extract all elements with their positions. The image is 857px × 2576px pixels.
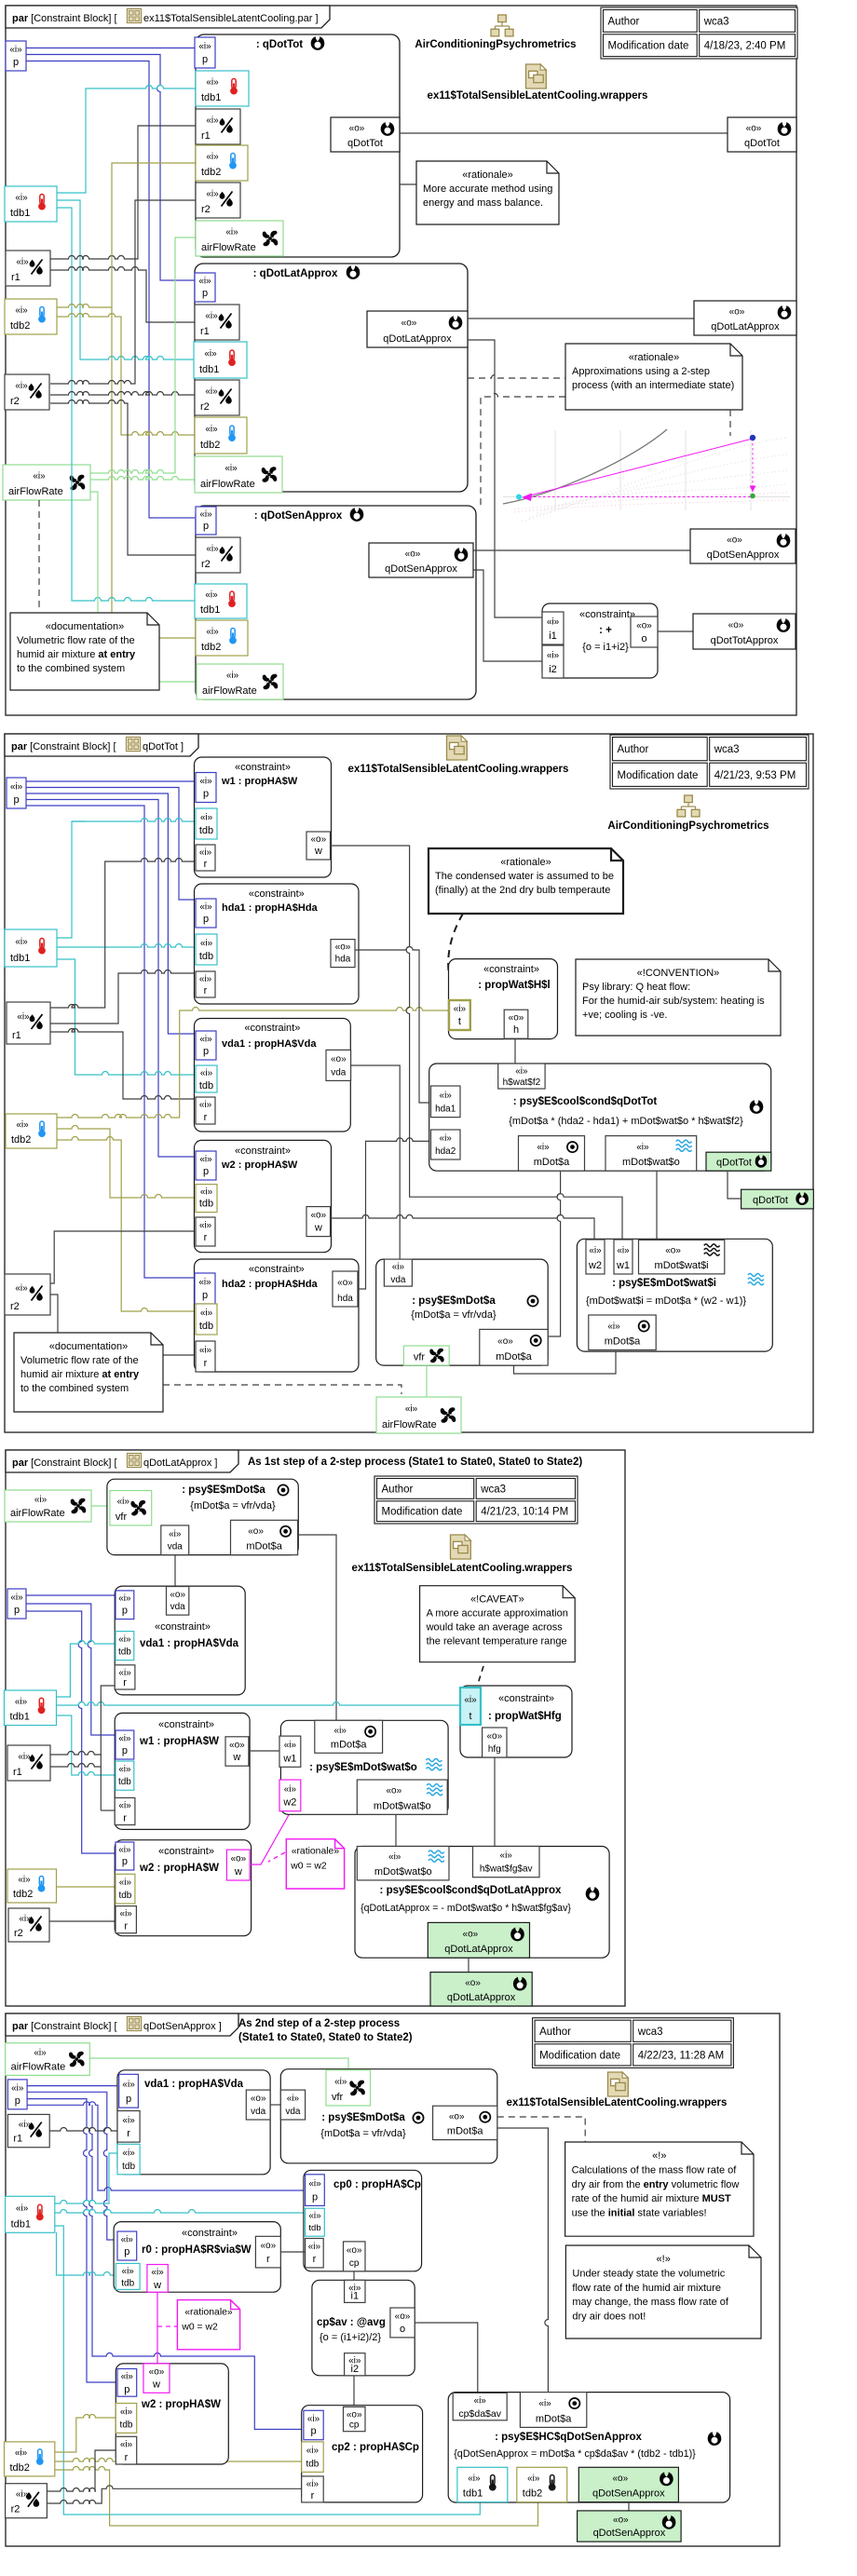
svg-text:r1: r1 (13, 2134, 22, 2145)
chart magenta process lines (524, 439, 753, 497)
rationale note panel 2 (condensed water) (428, 848, 623, 914)
svg-text:r: r (123, 1677, 127, 1688)
source pin «i» r1 (panel 4) (7, 2114, 49, 2147)
pin qDotTot-eq «i» h$wat$f2 (498, 1064, 545, 1089)
panel 3 tab (6, 1450, 238, 1472)
panel 1 frame par ex11$TotalSensibleLatentCooling.par (6, 6, 796, 715)
svg-text:«i»: «i» (18, 1875, 31, 1885)
constraint block : + (sum) (542, 603, 658, 678)
svg-text:p: p (122, 1606, 128, 1617)
svg-text:o: o (641, 633, 646, 644)
wire p to cp0.p (panel 4) (27, 2102, 306, 2190)
svg-text:i2: i2 (351, 2364, 360, 2375)
wire r1 to w1.r (50, 859, 196, 1008)
package icon AirConditioningPsychrometrics (panel 2) (677, 795, 700, 818)
svg-text:«i»: «i» (18, 1752, 31, 1762)
wire cpav.o to HC.cp$da$av (415, 2323, 478, 2393)
svg-text:p: p (312, 2191, 318, 2203)
pin propWatHl «i» t (449, 1000, 470, 1030)
svg-text:Author: Author (618, 744, 649, 755)
svg-text:4/18/23, 2:40 PM: 4/18/23, 2:40 PM (704, 41, 786, 52)
wire p to qDotTot.p (26, 47, 195, 49)
pin w1 «o» w (306, 832, 331, 860)
svg-text:Modification date: Modification date (618, 770, 699, 781)
svg-text:i2: i2 (549, 664, 557, 675)
svg-text:«i»: «i» (500, 1851, 513, 1861)
svg-text:{o = (i1+i2)/2}: {o = (i1+i2)/2} (320, 2332, 381, 2343)
svg-text:qDotSenApprox: qDotSenApprox (707, 549, 780, 561)
svg-text:AirConditioningPsychrometrics: AirConditioningPsychrometrics (415, 39, 576, 50)
svg-text:dry air from the entry volumet: dry air from the entry volumetric flow (572, 2179, 740, 2190)
svg-text:«i»: «i» (306, 2479, 320, 2489)
wire tdb2 to w2.tdb (panel 4) (55, 2415, 116, 2453)
svg-text:tdb2: tdb2 (11, 1134, 31, 1146)
svg-text:tdb: tdb (118, 1891, 131, 1901)
svg-text:«o»: «o» (613, 2515, 629, 2526)
svg-text:«i»: «i» (474, 2395, 487, 2406)
svg-text:«i»: «i» (120, 1909, 133, 1919)
svg-text:«i»: «i» (607, 1322, 620, 1332)
svg-text:«i»: «i» (15, 193, 28, 203)
svg-text:vda: vda (251, 2107, 266, 2117)
svg-text:«i»: «i» (122, 2149, 135, 2159)
pin hda1 «i» r (196, 971, 215, 997)
constraint block : propWat$Hfg (460, 1686, 572, 1757)
svg-text:h$wat$fg$av: h$wat$fg$av (480, 1864, 533, 1875)
anchor dashed magenta rationale (268, 1852, 285, 1862)
svg-text:«o»: «o» (149, 2367, 165, 2378)
svg-text:«i»: «i» (199, 1155, 212, 1165)
anchor dashed rationale2 to chart (729, 410, 731, 436)
svg-text:«i»: «i» (118, 1593, 131, 1604)
svg-text:«i»: «i» (440, 1133, 453, 1144)
svg-text:«i»: «i» (15, 937, 28, 947)
wire qDotTot out to frame port (400, 132, 728, 134)
wire r1 to qDotTot.r1 (50, 126, 196, 259)
anchor dashed airFlowRate to documentation note (38, 500, 40, 611)
svg-text:w2 : propHA$W: w2 : propHA$W (221, 1159, 298, 1171)
source pin «i» r1 (panel 1) (6, 251, 50, 286)
svg-text:«i»: «i» (199, 777, 212, 787)
wire vda1.vda down to psy mDot$a vda (351, 1065, 401, 1259)
pin mDota3 «i» vfr (110, 1491, 152, 1525)
svg-text:«i»: «i» (33, 471, 46, 481)
wire airFlowRate to qDotLatApprox.airFlowRate (90, 477, 195, 480)
svg-text:wca3: wca3 (637, 2027, 663, 2038)
svg-text:w: w (152, 2379, 160, 2390)
svg-text:p: p (15, 2095, 20, 2107)
svg-text:vda: vda (331, 1067, 347, 1078)
svg-text:: psy$E$mDot$a: : psy$E$mDot$a (182, 1485, 265, 1496)
source pin «i» r1 (panel 3) (7, 1745, 50, 1781)
svg-text:ex11$TotalSensibleLatentCoolin: ex11$TotalSensibleLatentCooling.par ] (143, 13, 319, 24)
svg-text:«i»: «i» (16, 257, 29, 267)
pin qDotTot «i» r1 (196, 109, 240, 144)
pin hda2 «i» tdb (196, 1304, 217, 1335)
pin qDotTot «i» tdb1 (196, 71, 249, 106)
svg-text:«o»: «o» (449, 2111, 465, 2122)
svg-text:«rationale»: «rationale» (500, 857, 551, 868)
svg-text:«rationale»: «rationale» (184, 2308, 233, 2318)
constraint block cp2 : propHA$Cp (302, 2406, 423, 2502)
pin w1-3 «i» p (116, 1730, 134, 1759)
source pin «i» tdb1 (panel 3) (5, 1690, 57, 1726)
wire w2.w to mDot$wat$i.w2 (331, 1215, 595, 1241)
svg-text:Under steady state the volumet: Under steady state the volumetric (572, 2268, 725, 2279)
svg-text:{mDot$wat$i = mDot$a * (w2 - w: {mDot$wat$i = mDot$a * (w2 - w1)} (586, 1295, 746, 1307)
svg-text:«o»: «o» (248, 1526, 264, 1537)
svg-text:w: w (153, 2280, 161, 2291)
pin latapprox-eq «i» h$wat$fg$av (473, 1847, 540, 1878)
pin r0 «i» tdb (116, 2263, 140, 2289)
svg-text:«i»: «i» (15, 1697, 28, 1707)
source pin «i» tdb2 (panel 1) (5, 299, 57, 334)
svg-text:«o»: «o» (746, 124, 762, 134)
pin qDotLatApprox «i» p (195, 273, 215, 302)
svg-text:vda1 : propHA$Vda: vda1 : propHA$Vda (144, 2079, 244, 2090)
wire qDotSenApprox to plus.i2 (473, 570, 542, 661)
panel 4 frame par qDotSenApprox (6, 2013, 780, 2546)
wire tdb1 to vda1.tdb (panel 4) (55, 2153, 117, 2203)
svg-text:vfr: vfr (332, 2092, 344, 2103)
svg-text:: psy$E$HC$qDotSenApprox: : psy$E$HC$qDotSenApprox (495, 2432, 642, 2443)
pin HC «i» tdb2 (olive) (517, 2467, 567, 2501)
svg-text:«i»: «i» (287, 2094, 300, 2104)
svg-text:«o»: «o» (729, 307, 745, 318)
wire airFlowRate to qDotTot.airFlowRate (90, 237, 196, 473)
svg-text:o: o (400, 2324, 405, 2335)
note ! under steady state (panel 4) (565, 2245, 761, 2339)
source pin «i» tdb2 (panel 2) (6, 1114, 57, 1148)
svg-text:«constraint»: «constraint» (235, 1146, 291, 1157)
svg-text:tdb: tdb (306, 2459, 319, 2469)
svg-text:hda1: hda1 (435, 1105, 456, 1115)
svg-text:«i»: «i» (392, 1262, 405, 1272)
svg-text:«i»: «i» (118, 1845, 131, 1855)
wire tdb1 to vda1.tdb (57, 959, 196, 1075)
constraint block : psy$E$mDot$a (panel 3) (107, 1479, 298, 1554)
pin vda1-4 «i» p (119, 2074, 139, 2108)
constraint block vda1 : propHA$Vda (panel 2) (195, 1019, 351, 1132)
svg-text:«constraint»: «constraint» (483, 964, 539, 975)
svg-text:r1: r1 (13, 1767, 22, 1778)
pin w2 «i» p (196, 1151, 216, 1180)
wire tdb2 to w2.tdb (panel 3) (56, 1886, 116, 1888)
svg-text:mDot$wat$o: mDot$wat$o (622, 1157, 680, 1168)
svg-text:: propWat$Hfg: : propWat$Hfg (488, 1711, 562, 1722)
svg-text:ex11$TotalSensibleLatentCoolin: ex11$TotalSensibleLatentCooling.wrappers (348, 764, 569, 775)
svg-text:par [Constraint Block] [: par [Constraint Block] [ (12, 13, 117, 24)
pin propWatHfg «i» t (cyan) (460, 1688, 481, 1725)
svg-text:«documentation»: «documentation» (49, 1341, 128, 1352)
svg-text:cp$av : @avg: cp$av : @avg (317, 2317, 386, 2328)
svg-text:«i»: «i» (118, 1734, 131, 1744)
svg-text:«i»: «i» (10, 1593, 23, 1603)
svg-text:Calculations of the mass flow: Calculations of the mass flow rate of (572, 2164, 738, 2176)
wire p to w1.p (26, 780, 196, 782)
svg-text:airFlowRate: airFlowRate (382, 1419, 437, 1430)
pin hda1 «i» tdb (196, 934, 217, 965)
pin qDotSenApprox «i» airFlowRate (197, 664, 283, 699)
constraint block w2 : propHA$W (panel 2) (195, 1140, 332, 1252)
pin qDotTot «i» r2 (196, 183, 240, 218)
author table panel 2 (610, 735, 809, 789)
svg-text:ex11$TotalSensibleLatentCoolin: ex11$TotalSensibleLatentCooling.wrappers (428, 90, 648, 102)
svg-text:A more accurate approximation: A more accurate approximation (427, 1608, 568, 1620)
anchor dashed mDot$a to note (497, 2117, 585, 2142)
pin qDotLatApprox «i» r2 (195, 380, 239, 415)
wire tdb2 to cp2.tdb (panel 4) (55, 2459, 302, 2462)
svg-text:(finally) at the 2nd dry bulb: (finally) at the 2nd dry bulb temperaute (435, 885, 610, 896)
svg-text:p: p (203, 521, 209, 532)
svg-text:«rationale»: «rationale» (629, 352, 679, 363)
source pin «i» p (panel 4) (7, 2080, 27, 2109)
panel 1 tab (6, 6, 330, 28)
svg-text:tdb1: tdb1 (201, 92, 221, 103)
svg-text:mDot$wat$o: mDot$wat$o (374, 1866, 432, 1878)
pin r0 «i» w (magenta) (147, 2265, 168, 2293)
pin cp0 «i» tdb (306, 2208, 325, 2236)
svg-text:«o»: «o» (636, 621, 652, 631)
svg-text:«o»: «o» (331, 1054, 347, 1064)
svg-text:«i»: «i» (538, 2399, 551, 2409)
wire p to w2.p (panel 3) (26, 1611, 116, 1853)
svg-text:airFlowRate: airFlowRate (10, 1508, 65, 1519)
svg-text:«i»: «i» (307, 2414, 320, 2424)
wire tdb2 to hda2.tdb (57, 1137, 196, 1312)
svg-text:tdb: tdb (199, 1199, 213, 1210)
svg-text:«i»: «i» (284, 1741, 297, 1751)
constraint block : psy$E$mDot$wat$o (280, 1720, 448, 1814)
wire tdb1 to hda1.tdb (57, 944, 196, 947)
svg-text:«constraint»: «constraint» (158, 1719, 214, 1730)
svg-text:AirConditioningPsychrometrics: AirConditioningPsychrometrics (607, 820, 769, 832)
svg-text:«i»: «i» (121, 2235, 134, 2245)
svg-text:«i»: «i» (405, 1404, 418, 1415)
svg-text:«!»: «!» (652, 2150, 666, 2162)
svg-text:vfr: vfr (414, 1352, 426, 1363)
svg-text:«i»: «i» (224, 464, 238, 474)
svg-text:rate of the humid air mixture: rate of the humid air mixture MUST (572, 2193, 731, 2204)
svg-text:Author: Author (382, 1484, 414, 1495)
wire p to vda1.p (panel 3) (26, 1594, 116, 1596)
pin vda1-4 «i» tdb (117, 2144, 140, 2175)
pin qDotLatApprox «i» r1 (195, 305, 239, 340)
svg-text:p: p (13, 794, 19, 806)
svg-text:hda2: hda2 (435, 1146, 456, 1157)
wire mDot$a to HC.mDot$a (solid) (497, 2128, 549, 2393)
svg-text:«i»: «i» (334, 1726, 347, 1736)
wire vda1.vda to psy vda (panel 4) (270, 2104, 280, 2106)
svg-text:«i»: «i» (205, 590, 218, 601)
wire airFlowRate to qDotSenApprox.airFlowRate (90, 492, 197, 682)
svg-text:«i»: «i» (16, 2203, 29, 2214)
svg-text:«i»: «i» (206, 627, 219, 637)
pin w1-3 «o» w (225, 1737, 249, 1766)
pin w2-3 «i» p (116, 1842, 134, 1870)
constraint block hda1 : propHA$Hda (panel 2) (195, 884, 360, 1004)
svg-text:tdb: tdb (199, 951, 213, 962)
wire p to vda1.p (panel 4) (27, 2085, 119, 2087)
svg-text:: qDotLatApprox: : qDotLatApprox (253, 268, 338, 279)
svg-text:p: p (203, 789, 209, 800)
pin hda2 «o» hda (333, 1271, 358, 1307)
anchor dashed documentation to airFlowRate (163, 1385, 401, 1394)
svg-text:«o»: «o» (337, 1278, 353, 1288)
pin w1-3 «i» r (115, 1797, 135, 1824)
wire cp0.cp to cpav.i1 (353, 2271, 355, 2281)
pin plus «i» i1 (542, 612, 564, 644)
svg-text:«i»: «i» (199, 1100, 212, 1110)
wire h to h$wat$f2 (514, 1039, 516, 1064)
svg-text:r1: r1 (12, 1030, 21, 1041)
svg-text:use the initial state variable: use the initial state variables! (572, 2208, 707, 2219)
svg-text:cp: cp (349, 2420, 360, 2431)
svg-text:«i»: «i» (308, 2242, 321, 2252)
svg-text:process (with an intermediate: process (with an intermediate state) (572, 380, 734, 391)
note !CONVENTION (576, 959, 781, 1036)
constraint block cp0 : propHA$Cp (304, 2170, 422, 2271)
svg-text:«i»: «i» (199, 974, 212, 984)
svg-text:vda: vda (285, 2107, 301, 2117)
svg-text:«i»: «i» (117, 1497, 130, 1507)
source pin «i» r2 (panel 1) (5, 374, 49, 410)
svg-text:mDot$a: mDot$a (605, 1336, 641, 1348)
svg-text:«i»: «i» (121, 2372, 134, 2382)
pin cp2 «o» cp (344, 2407, 366, 2431)
svg-text:«constraint»: «constraint» (498, 1693, 554, 1704)
svg-text:tdb2: tdb2 (200, 440, 220, 451)
svg-text:«i»: «i» (34, 1495, 48, 1505)
constraint block : psy$E$HC$qDotSenApprox (448, 2393, 729, 2502)
svg-text:qDotLatApprox: qDotLatApprox (444, 1944, 513, 1955)
svg-text:w1 : propHA$W: w1 : propHA$W (221, 776, 298, 787)
wire mDot$a down to mDot$wat$i.mDot$a (514, 1350, 617, 1374)
svg-text:{mDot$a * (hda2 - hda1) + mDo: {mDot$a * (hda2 - hda1) + mDot$wat$o * h… (509, 1116, 743, 1127)
svg-text:r: r (204, 1112, 208, 1123)
pin mDota4 «i» vda (280, 2090, 305, 2120)
svg-text:r: r (204, 859, 208, 870)
svg-text:«i»: «i» (454, 1004, 467, 1014)
svg-text:qDotLatApprox: qDotLatApprox (447, 1992, 516, 2003)
svg-text:hda1 : propHA$Hda: hda1 : propHA$Hda (222, 902, 319, 914)
svg-text:«i»: «i» (199, 1035, 212, 1045)
svg-text:«i»: «i» (205, 425, 218, 435)
svg-text:«o»: «o» (251, 2094, 266, 2104)
svg-text:to the combined system: to the combined system (20, 1383, 129, 1394)
constraint block r0 : propHA$R$via$W (114, 2222, 280, 2293)
pin qDotLatApprox «i» airFlowRate (195, 456, 282, 493)
svg-text:4/21/23, 9:53 PM: 4/21/23, 9:53 PM (714, 770, 796, 781)
svg-text:r2: r2 (10, 1301, 20, 1312)
wire p to vda1.p (26, 793, 196, 1034)
svg-text:qDotSenApprox: qDotSenApprox (593, 2528, 666, 2539)
wire mDot$a out to mDot$wat$o.mDot$a (298, 1535, 336, 1720)
pin vda1-4 «i» r (117, 2111, 140, 2143)
svg-text:mDot$wat$o: mDot$wat$o (374, 1800, 431, 1811)
svg-text:flow rate of the humid air mix: flow rate of the humid air mixture (572, 2283, 721, 2294)
source pin «i» tdb2 (panel 3) (7, 1869, 57, 1903)
svg-text:mDot$a: mDot$a (246, 1541, 282, 1552)
wire p to hda2.p (26, 806, 195, 1278)
svg-text:«i»: «i» (15, 1283, 28, 1294)
svg-text:tdb2: tdb2 (10, 320, 30, 332)
constraint property block : qDotSenApprox (196, 506, 476, 699)
wire p to w1.p (panel 3) (26, 1604, 116, 1735)
pin qDotLatApprox «i» tdb2 (195, 417, 247, 454)
source pin «i» p (panel 1) (6, 41, 26, 71)
svg-text:tdb1: tdb1 (463, 2488, 483, 2500)
svg-text:«i»: «i» (547, 651, 560, 661)
svg-text:Author: Author (539, 2027, 571, 2038)
rationale note w0 = w2 (panel 4) (177, 2300, 239, 2350)
source pin «i» airFlowRate (panel 3) (5, 1490, 91, 1522)
svg-text:p: p (203, 1166, 209, 1177)
svg-text:«i»: «i» (206, 189, 219, 199)
pin mDota3 «i» vda (161, 1525, 189, 1555)
svg-text:«!»: «!» (657, 2254, 671, 2265)
svg-text:«i»: «i» (17, 1012, 30, 1023)
svg-text:w0 = w2: w0 = w2 (290, 1862, 327, 1872)
svg-text:: propWat$H$l: : propWat$H$l (478, 980, 551, 991)
wire hfg down to h$wat$fg$av (494, 1757, 496, 1847)
svg-text:Volumetric flow rate of the: Volumetric flow rate of the (17, 635, 135, 646)
svg-text:r2: r2 (200, 401, 210, 413)
wire w2.w magenta to mDot$wat$o.w2 (250, 1813, 290, 1864)
package icon ex11 wrappers (panel 3) (451, 1535, 471, 1559)
svg-text:«o»: «o» (509, 1013, 524, 1024)
svg-text:tdb2: tdb2 (13, 1889, 33, 1900)
pin qDotSenApprox «i» tdb2 (196, 620, 248, 656)
pin HC «i» cp$da$av (453, 2393, 507, 2420)
frame port «o» qDotTot (green) (741, 1189, 814, 1209)
svg-text:hda: hda (335, 955, 351, 965)
svg-text:«o»: «o» (497, 1336, 513, 1347)
svg-text:«o»: «o» (229, 1741, 245, 1751)
svg-text:+ve; cooling is -ve.: +ve; cooling is -ve. (582, 1010, 667, 1021)
svg-text:«o»: «o» (465, 1978, 481, 1988)
constraint property block : qDotTot (196, 34, 400, 257)
svg-text:tdb2: tdb2 (523, 2488, 542, 2500)
pin qDotTot «o» qDotTot (331, 117, 400, 152)
svg-text:p: p (13, 57, 19, 68)
wire tdb1 to qDotLatApprox.tdb1 (57, 200, 194, 359)
svg-text:«i»: «i» (200, 813, 213, 823)
svg-text:i1: i1 (549, 630, 557, 642)
svg-text:«i»: «i» (440, 1091, 453, 1101)
svg-text:dry air does not!: dry air does not! (572, 2312, 646, 2323)
svg-text:«i»: «i» (547, 617, 560, 628)
pin mDotwati «o» mDot$wat$i (639, 1240, 725, 1274)
pin w2-3 «o» w (magenta) (226, 1850, 250, 1880)
svg-text:w2: w2 (588, 1260, 602, 1271)
svg-text:p: p (203, 914, 209, 925)
svg-text:: psy$E$mDot$a: : psy$E$mDot$a (412, 1295, 496, 1307)
svg-text:vda: vda (170, 1602, 186, 1612)
svg-text:w1: w1 (282, 1753, 296, 1764)
svg-text:cp0 : propHA$Cp: cp0 : propHA$Cp (333, 2179, 421, 2190)
svg-text:qDotSenApprox: qDotSenApprox (592, 2488, 665, 2500)
svg-text:{mDot$a = vfr/vda}: {mDot$a = vfr/vda} (320, 2128, 406, 2139)
svg-text:humid air mixture at entry: humid air mixture at entry (17, 649, 136, 660)
svg-text:w2 : propHA$W: w2 : propHA$W (139, 1863, 219, 1874)
pin cp0 «i» p (306, 2175, 325, 2206)
constraint block w1 : propHA$W (panel 2) (195, 757, 332, 877)
anchor rationale1 to qDotTot box (400, 183, 416, 185)
svg-text:«i»: «i» (34, 2048, 47, 2058)
svg-text:r2: r2 (14, 1928, 23, 1939)
wire tdb1 to qDotSenApprox.tdb1 (57, 208, 195, 601)
